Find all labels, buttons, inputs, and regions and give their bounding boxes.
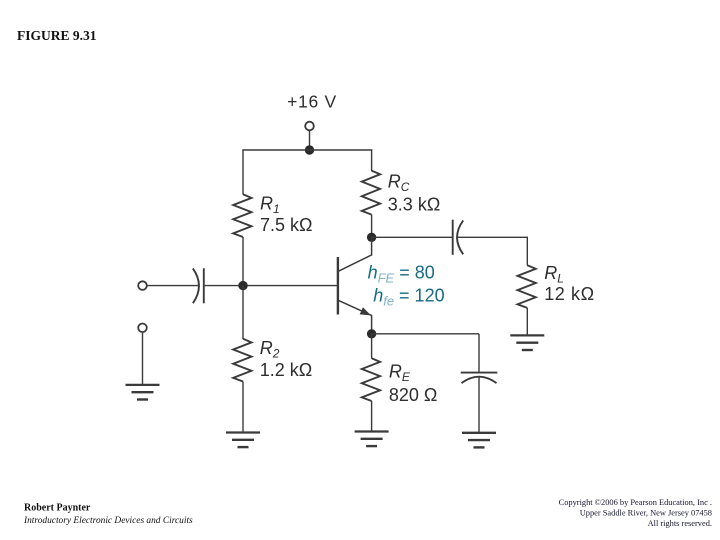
resistor RL: [518, 265, 536, 308]
node base junction dot: [238, 281, 247, 290]
svg-text:All rights reserved.: All rights reserved.: [648, 519, 712, 528]
wire emitter node to RE: [371, 334, 373, 359]
node collector junction dot: [367, 233, 376, 242]
node Vcc junction dot: [305, 145, 314, 154]
ground (RL): [510, 334, 544, 336]
wire C1 to base node: [204, 285, 337, 287]
ground (R2): [226, 431, 260, 433]
supply terminal circle: [305, 122, 314, 131]
svg-text:1.2 kΩ: 1.2 kΩ: [260, 360, 312, 380]
wire terminal to ground: [142, 332, 144, 384]
wire R2 to ground: [242, 382, 244, 432]
wire top rail: [242, 149, 372, 151]
ground (input): [126, 384, 160, 386]
capacitor C3 (emitter bypass): [461, 372, 498, 374]
wire RC to collector node: [371, 215, 373, 238]
input terminal circle: [138, 281, 147, 290]
wire rail to R1: [242, 149, 244, 194]
resistor R1: [233, 194, 251, 237]
resistor RC: [362, 171, 380, 215]
wire base node to R2: [242, 286, 244, 339]
svg-text:7.5 kΩ: 7.5 kΩ: [260, 215, 312, 235]
transistor Q1 base bar: [337, 257, 339, 315]
transistor Q1 collector lead: [339, 237, 372, 271]
transistor Q1 emitter lead: [339, 300, 372, 333]
svg-text:FIGURE 9.31: FIGURE 9.31: [17, 28, 97, 43]
svg-text:+16 V: +16 V: [287, 92, 337, 112]
capacitor C2 (output coupling): [452, 220, 454, 255]
node emitter junction dot: [367, 329, 376, 338]
svg-text:Copyright ©2006 by Pearson Edu: Copyright ©2006 by Pearson Education, In…: [559, 498, 712, 507]
resistor RE: [362, 358, 380, 401]
wire supply stub: [309, 131, 311, 150]
resistor R2: [233, 339, 251, 382]
wire R1 to base node: [242, 237, 244, 286]
wire collector node to C2: [372, 236, 452, 238]
capacitor C1 (input coupling): [193, 268, 199, 303]
wire emitter node to bypass cap: [372, 333, 479, 335]
wire C3 to ground: [478, 377, 480, 432]
transistor Q1 emitter arrow: [360, 308, 369, 315]
svg-text:Introductory Electronic Device: Introductory Electronic Devices and Circ…: [23, 516, 193, 526]
lower input terminal circle: [138, 324, 147, 333]
wire C2 to RL: [457, 236, 527, 238]
svg-text:12 kΩ: 12 kΩ: [544, 284, 594, 304]
wire input to C1: [147, 285, 198, 287]
svg-text:3.3 kΩ: 3.3 kΩ: [388, 194, 440, 214]
ground (RE): [355, 430, 389, 432]
wire rail to RC: [371, 149, 373, 171]
ground (bypass cap): [462, 432, 496, 434]
svg-text:Robert Paynter: Robert Paynter: [24, 503, 91, 514]
svg-text:Upper Saddle River, New Jersey: Upper Saddle River, New Jersey 07458: [580, 509, 712, 518]
svg-text:820 Ω: 820 Ω: [389, 385, 438, 405]
wire RL to ground: [526, 308, 528, 335]
wire RE to ground: [371, 401, 373, 431]
